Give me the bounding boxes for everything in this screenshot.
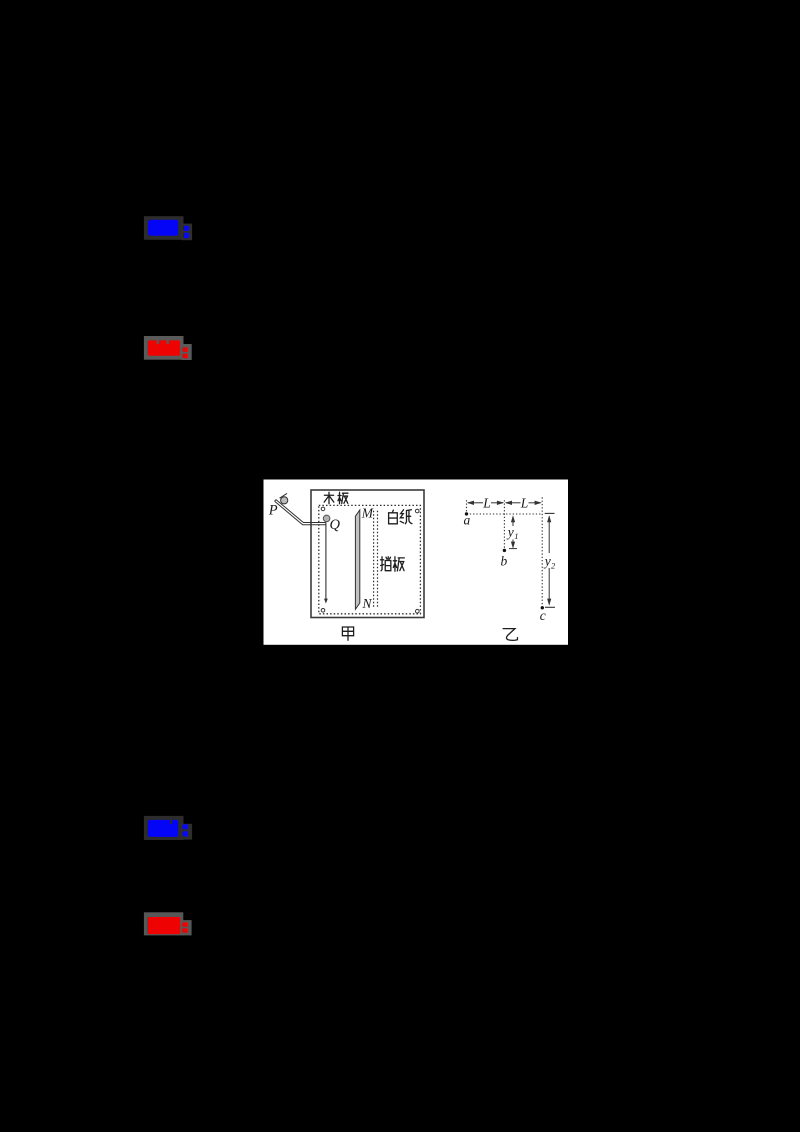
svg-text:L: L xyxy=(482,495,491,510)
paper dashed rectangle (white paper) xyxy=(319,505,421,613)
baffle trace dotted double line xyxy=(374,511,378,609)
ball at Q xyxy=(323,515,330,522)
badge answer1 highlight xyxy=(144,216,192,240)
svg-text:N: N xyxy=(362,596,373,611)
dimension L right span xyxy=(505,501,542,505)
ball on ramp xyxy=(281,497,288,504)
svg-text:Q: Q xyxy=(330,517,341,533)
svg-text:1: 1 xyxy=(514,531,518,541)
dotted vertical at a xyxy=(466,500,468,513)
svg-text:M: M xyxy=(361,506,374,521)
ramp chute double rail xyxy=(275,500,326,525)
dotted horizontal through a xyxy=(467,513,543,515)
label bai-zhi (white paper) xyxy=(389,510,398,524)
pin circle top-right xyxy=(415,509,419,513)
svg-text:c: c xyxy=(540,608,546,623)
label mu-ban (wooden board) xyxy=(324,492,334,504)
label dang-ban (baffle) xyxy=(381,557,391,571)
badge analysis2 red text blob xyxy=(147,917,188,934)
label y1 xyxy=(506,525,519,542)
dotted vertical at c xyxy=(541,497,543,607)
glyphs group xyxy=(324,492,517,640)
y2 dimension arrow xyxy=(545,513,555,607)
label y2 xyxy=(543,554,556,571)
release pin above ball xyxy=(280,493,287,498)
dimension L left span xyxy=(467,501,504,505)
badge answer1 blue text blob xyxy=(148,220,189,238)
svg-text:y: y xyxy=(543,554,551,569)
svg-text:a: a xyxy=(464,513,471,528)
point b xyxy=(503,549,506,552)
point a xyxy=(465,512,468,515)
figure white background xyxy=(264,480,569,645)
y1 dimension arrow xyxy=(509,515,517,548)
badge analysis1 highlight xyxy=(144,336,192,360)
svg-text:b: b xyxy=(501,554,508,569)
svg-text:L: L xyxy=(520,495,529,510)
board outline (wooden board) xyxy=(311,490,424,618)
svg-text:y: y xyxy=(506,525,514,540)
pin circle bottom-left xyxy=(321,609,325,613)
label yi (second) xyxy=(503,629,517,641)
pin circle top-left xyxy=(321,507,325,511)
label jia (first) xyxy=(342,627,353,640)
svg-text:P: P xyxy=(268,503,278,519)
falling trajectory arrow xyxy=(324,523,328,604)
baffle strip MN xyxy=(355,510,359,609)
point c xyxy=(541,606,544,609)
badge answer2 blue text blob xyxy=(147,820,187,837)
dotted vertical at b xyxy=(503,500,505,549)
badge analysis2 highlight xyxy=(144,912,192,935)
pin circle bottom-right xyxy=(416,609,420,613)
badge analysis1 red text blob xyxy=(148,340,188,358)
badge answer2 highlight xyxy=(144,816,192,840)
